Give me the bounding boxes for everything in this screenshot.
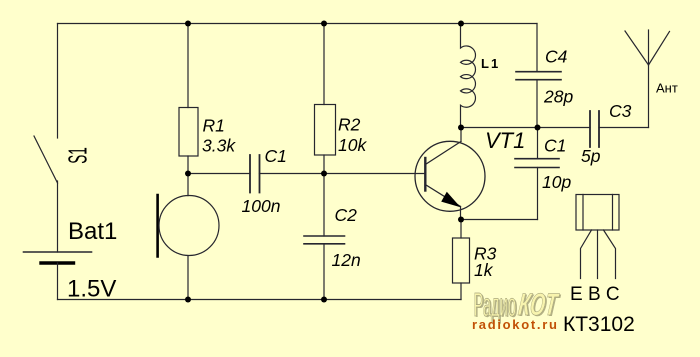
wire emitter down xyxy=(460,207,462,220)
node bottom mic xyxy=(185,297,191,303)
transistor package leg C xyxy=(604,230,616,279)
node top L1 xyxy=(458,21,464,27)
wire C4 top drop xyxy=(536,24,538,72)
svg-text:3.3k: 3.3k xyxy=(202,136,236,156)
svg-text:28p: 28p xyxy=(543,87,573,107)
svg-text:L1: L1 xyxy=(481,56,500,71)
svg-text:10p: 10p xyxy=(542,172,571,192)
wire C1 10p top drop xyxy=(537,128,539,159)
wire R2 bottom xyxy=(323,155,325,174)
wire R3 top xyxy=(460,220,462,239)
battery Bat1 plate long xyxy=(24,251,92,253)
wire antenna vertical xyxy=(648,30,650,128)
wire mid row right xyxy=(260,173,325,175)
resistor R3 xyxy=(453,238,470,283)
transistor VT1 emitter arrow xyxy=(441,192,460,207)
svg-text:КТ3102: КТ3102 xyxy=(563,313,635,336)
svg-text:radiokot.ru: radiokot.ru xyxy=(472,317,559,332)
wire mic bottom lead xyxy=(187,256,189,300)
wire mic top lead xyxy=(187,174,189,196)
wire collector up xyxy=(460,128,462,142)
wire top rail xyxy=(58,23,538,25)
wire R3 bottom xyxy=(460,283,462,300)
node top R1 xyxy=(185,21,191,27)
capacitor C1 100n xyxy=(250,155,260,193)
svg-text:12n: 12n xyxy=(332,250,361,270)
wire R2 top drop xyxy=(323,24,325,105)
svg-text:C1: C1 xyxy=(265,146,287,166)
node top R2 xyxy=(321,21,327,27)
svg-text:E B C: E B C xyxy=(570,284,620,305)
svg-text:R2: R2 xyxy=(338,115,361,135)
node collector L1 xyxy=(458,125,464,131)
wire emitter row xyxy=(461,219,538,221)
microphone circle xyxy=(159,196,219,256)
wire mid row left xyxy=(188,173,250,175)
wire R1 bottom xyxy=(187,156,189,174)
transistor VT1 circle xyxy=(415,141,485,211)
svg-text:C1: C1 xyxy=(544,136,566,156)
wire C3 to antenna xyxy=(599,127,649,129)
transistor package inner lines xyxy=(583,195,613,231)
node emitter xyxy=(458,217,464,223)
svg-text:R1: R1 xyxy=(203,116,225,136)
wire left rail lower xyxy=(57,263,59,300)
wire bottom rail xyxy=(58,299,462,301)
node mid R2 xyxy=(321,171,327,177)
switch S1 xyxy=(34,136,58,183)
capacitor C2 xyxy=(304,236,345,244)
svg-text:1k: 1k xyxy=(474,260,494,280)
capacitor C3 xyxy=(590,111,599,147)
transistor package KT3102 outline xyxy=(576,195,619,231)
wire left rail upper xyxy=(57,24,59,139)
svg-text:C3: C3 xyxy=(609,101,632,121)
resistor R2 xyxy=(315,105,336,156)
svg-text:S1: S1 xyxy=(64,147,93,164)
svg-text:1.5V: 1.5V xyxy=(67,276,116,303)
svg-text:Bat1: Bat1 xyxy=(68,218,117,245)
svg-text:10k: 10k xyxy=(338,135,367,155)
transistor package leg B xyxy=(597,230,599,279)
svg-text:5p: 5p xyxy=(581,146,601,166)
battery Bat1 plate short xyxy=(41,261,74,264)
node mid R1 xyxy=(185,171,191,177)
svg-text:100n: 100n xyxy=(242,196,281,216)
antenna arms xyxy=(625,31,670,65)
wire C1 10p bottom drop xyxy=(537,168,539,220)
resistor R1 xyxy=(179,108,198,157)
svg-text:C4: C4 xyxy=(545,47,568,67)
node bottom C2 xyxy=(321,297,327,303)
transistor VT1 emitter xyxy=(425,185,460,207)
transistor package leg E xyxy=(581,230,592,279)
inductor L1 xyxy=(461,24,476,128)
svg-text:C2: C2 xyxy=(335,205,358,225)
wire base lead xyxy=(324,173,425,175)
microphone bar xyxy=(156,195,159,257)
capacitor C4 xyxy=(516,72,561,80)
transistor VT1 base bar xyxy=(424,158,426,191)
wire C4 bottom drop xyxy=(536,80,538,128)
wire C2 top xyxy=(323,174,325,237)
node collector C4 xyxy=(535,125,541,131)
svg-text:VT1: VT1 xyxy=(485,128,525,153)
wire C2 bottom xyxy=(323,244,325,300)
wire R1 top drop xyxy=(187,24,189,108)
svg-text:Ант: Ант xyxy=(656,81,678,96)
wire collector row xyxy=(461,127,590,129)
wire left rail mid xyxy=(57,181,59,252)
watermark Radio KOT xyxy=(474,286,563,324)
transistor VT1 collector xyxy=(425,142,461,165)
capacitor C1 10p xyxy=(515,159,559,168)
